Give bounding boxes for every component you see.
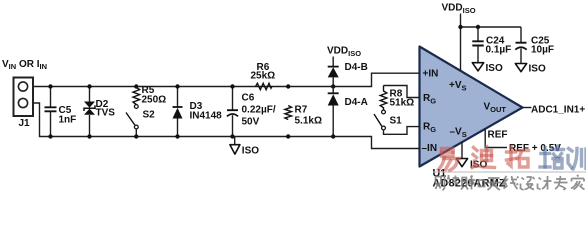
watermark gray character 3 (he) <box>469 176 485 190</box>
node dot bottom S2 <box>134 134 138 138</box>
resistor R8 <box>380 86 414 111</box>
node dot top C6 <box>230 84 234 88</box>
svg-text:ADC1_IN1+: ADC1_IN1+ <box>531 104 585 115</box>
diode D4-A <box>328 87 368 137</box>
svg-text:–IN: –IN <box>422 143 438 154</box>
svg-text:C6: C6 <box>242 93 255 104</box>
node dot top C5 <box>48 84 52 88</box>
node dot top D2 <box>87 84 91 88</box>
switch S1 <box>374 110 402 130</box>
svg-text:51kΩ: 51kΩ <box>390 98 415 109</box>
svg-text:0.1µF: 0.1µF <box>486 44 512 55</box>
ground ISO below C24 <box>472 63 503 74</box>
svg-text:1nF: 1nF <box>59 115 77 126</box>
op-amp U1 AD8220ARMZ triangle body <box>420 47 523 167</box>
node dot D4 bottom rail <box>331 134 335 138</box>
watermark gray character 8 (zhuan) <box>554 176 568 190</box>
ground ISO below C6 <box>230 137 259 157</box>
capacitor C5 <box>45 87 77 137</box>
watermark separator line <box>433 171 586 173</box>
svg-text:0.22µF/: 0.22µF/ <box>242 105 276 116</box>
svg-text:R7: R7 <box>295 105 308 116</box>
node dot bottom C5 <box>48 134 52 138</box>
svg-text:S1: S1 <box>390 116 403 127</box>
svg-text:ISO: ISO <box>486 63 503 74</box>
diode D4-B <box>328 62 368 87</box>
wire bottom rail from J1 to -IN pin <box>28 103 420 149</box>
watermark blue character 4 (Pei) <box>540 146 564 168</box>
resistor R5 <box>133 85 166 106</box>
wire VDD supply horizontal <box>461 26 522 28</box>
diode D2 TVS (bidirectional) <box>84 87 115 137</box>
wire top rail from J1 to +IN pin <box>28 73 420 86</box>
svg-text:250Ω: 250Ω <box>142 95 167 106</box>
node dot C24 junction <box>476 25 480 29</box>
input net label VIN OR IIN <box>2 59 47 71</box>
svg-text:REF: REF <box>488 130 508 141</box>
watermark gray character 2 (pin) <box>453 176 469 190</box>
svg-text:S2: S2 <box>143 110 156 121</box>
wire VDD supply vertical to +VS <box>460 14 462 71</box>
svg-text:D4-A: D4-A <box>345 97 368 108</box>
node dot bottom D2 <box>87 134 91 138</box>
node dot bottom C6 <box>230 134 234 138</box>
watermark gray character 6 (she2) <box>521 177 535 190</box>
svg-text:25kΩ: 25kΩ <box>251 71 276 82</box>
wire output to ADC <box>523 107 532 109</box>
net label VDDISO (clamp supply) <box>327 46 361 59</box>
node dot VDD junction <box>458 25 462 29</box>
node dot bottom R7 <box>286 134 290 138</box>
wire VDD to D4-B <box>332 57 334 67</box>
connector J1 <box>14 78 34 130</box>
watermark gray character 1 (she) <box>436 175 451 191</box>
node dot D4 top rail <box>331 84 335 88</box>
svg-text:+IN: +IN <box>423 69 439 80</box>
svg-text:J1: J1 <box>19 118 31 129</box>
svg-text:D4-B: D4-B <box>345 62 368 73</box>
wire RG loop top <box>384 86 420 98</box>
wire REF pin <box>485 129 507 148</box>
net label VDDISO (supply top) <box>442 3 476 16</box>
node dot top R7 <box>286 84 290 88</box>
diode D3 IN4148 <box>173 87 223 137</box>
node dot top D3 <box>175 84 179 88</box>
ground ISO below C25 <box>515 64 546 75</box>
resistor R6 <box>251 62 276 90</box>
ground ISO below -VS <box>456 159 487 171</box>
switch S2 <box>126 105 155 137</box>
watermark red character 2 (Di) <box>472 147 495 168</box>
watermark gray character 5 (xian) <box>504 176 519 189</box>
capacitor C6 <box>227 87 276 137</box>
watermark blue character 5 (Xun) <box>568 149 586 170</box>
watermark gray character 4 (tian) <box>487 178 502 190</box>
watermark red character 1 (Yi) <box>439 149 460 171</box>
watermark gray character 7 (ji) <box>538 176 552 190</box>
capacitor C25 <box>515 27 554 64</box>
svg-text:10µF: 10µF <box>531 44 554 55</box>
wire RG loop bottom <box>384 127 420 135</box>
capacitor C24 <box>472 27 511 63</box>
svg-text:IN4148: IN4148 <box>190 111 223 122</box>
wire -VS to ground <box>461 142 463 159</box>
svg-text:5.1kΩ: 5.1kΩ <box>295 116 322 127</box>
svg-text:50V: 50V <box>242 117 260 128</box>
resistor R7 <box>285 105 322 127</box>
svg-text:ISO: ISO <box>529 64 546 75</box>
node dot bottom D3 <box>175 134 179 138</box>
watermark red character 3 (Tuo) <box>507 147 529 168</box>
node dot top R5 <box>134 84 138 88</box>
watermark gray character 9 (jia) <box>571 175 585 190</box>
svg-text:ISO: ISO <box>242 145 259 156</box>
svg-text:TVS: TVS <box>96 108 116 119</box>
